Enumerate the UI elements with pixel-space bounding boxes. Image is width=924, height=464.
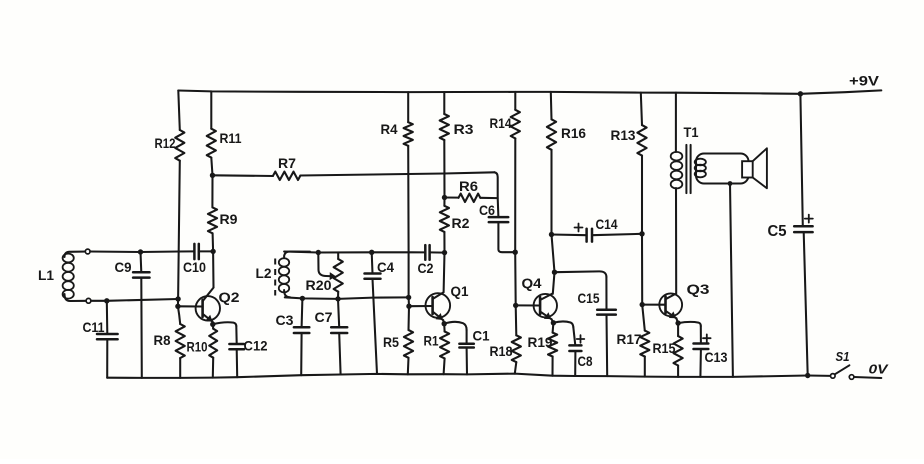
svg-text:C10: C10	[183, 259, 206, 275]
svg-text:R14: R14	[490, 115, 512, 131]
svg-text:C9: C9	[115, 259, 132, 275]
resistor R6	[445, 178, 498, 202]
node Q3 emitter	[675, 320, 680, 325]
resistor R8	[154, 324, 185, 358]
node Q2 collector	[210, 249, 215, 254]
wire rail to switch	[808, 374, 831, 376]
capacitor C13 electrolytic	[694, 326, 728, 377]
svg-text:C13: C13	[705, 349, 728, 365]
node R6 junction	[442, 195, 447, 200]
svg-text:R9: R9	[220, 211, 238, 227]
node R7 junction	[210, 173, 215, 178]
transformer T1 primary	[671, 93, 699, 190]
svg-text:R7: R7	[278, 155, 296, 171]
resistor R1	[424, 324, 450, 375]
label 0V	[869, 362, 890, 377]
wire R11-R9 branch vertical	[211, 91, 213, 287]
resistor R10	[187, 324, 218, 377]
svg-text:R12: R12	[155, 135, 176, 151]
node Q3 base tee	[640, 302, 645, 307]
svg-text:R1: R1	[424, 333, 439, 349]
node Q2 base tee upper	[175, 296, 180, 301]
resistor R3	[440, 114, 474, 140]
svg-text:R8: R8	[154, 332, 171, 348]
transistor Q2	[196, 288, 240, 322]
resistor R11	[207, 129, 242, 158]
node speaker bottom	[728, 181, 733, 186]
svg-text:R3: R3	[454, 121, 474, 137]
capacitor C15	[578, 277, 616, 376]
node C15 tee	[552, 270, 557, 275]
node C11 top	[104, 298, 109, 303]
wire R4 branch	[407, 92, 410, 306]
capacitor C2	[418, 245, 434, 276]
wire Q4 base lead	[516, 304, 540, 306]
transformer T1 core	[686, 145, 690, 193]
wire L1 bottom to base	[91, 299, 178, 301]
svg-text:C1: C1	[473, 328, 490, 344]
node Q1 emitter	[442, 321, 447, 326]
capacitor C7	[315, 299, 348, 375]
capacitor C4	[365, 252, 395, 374]
svg-text:C4: C4	[377, 259, 394, 275]
svg-text:R18: R18	[490, 343, 513, 359]
svg-text:T1: T1	[684, 124, 699, 140]
transistor Q4	[522, 275, 558, 319]
wire R7 line	[213, 172, 495, 176]
svg-text:R11: R11	[220, 130, 242, 146]
resistor R19	[528, 323, 558, 376]
resistor R14	[490, 110, 520, 139]
wire Q4 emitter	[552, 319, 554, 323]
wire Q3 emitter	[676, 318, 678, 323]
svg-text:Q1: Q1	[451, 283, 469, 299]
svg-text:R16: R16	[561, 125, 586, 141]
switch S1	[831, 349, 854, 379]
transformer T1 secondary	[695, 159, 706, 178]
transistor Q1	[426, 253, 469, 321]
wire switch to 0V	[854, 377, 881, 378]
terminal L1 bottom	[86, 298, 91, 303]
wire Q2 base lead	[178, 305, 203, 307]
svg-text:C6: C6	[479, 202, 495, 218]
svg-text:C14: C14	[596, 216, 618, 232]
wire Q3 base lead	[642, 304, 665, 306]
inductor L2	[256, 252, 311, 298]
node C9 top	[138, 249, 143, 254]
node Q1 collector	[442, 250, 447, 255]
wire R7 end down to C6	[495, 172, 499, 217]
resistor R7	[273, 155, 300, 180]
svg-text:L2: L2	[256, 265, 272, 281]
node C4 top	[369, 250, 374, 255]
resistor R15	[653, 323, 683, 377]
wire R14 branch	[514, 92, 517, 306]
node Q2 emitter	[210, 322, 215, 327]
capacitor C12	[229, 326, 267, 377]
capacitor C9	[115, 252, 150, 378]
svg-text:R20: R20	[306, 277, 332, 293]
svg-text:R17: R17	[617, 331, 642, 347]
label +9V	[849, 73, 880, 89]
resistor R13	[611, 125, 647, 156]
node C6 R14 junction	[513, 250, 518, 255]
svg-text:C11: C11	[83, 319, 105, 335]
svg-text:R10: R10	[187, 339, 208, 355]
svg-text:C15: C15	[578, 290, 600, 306]
wire +9V top rail	[178, 90, 881, 93]
svg-text:+9V: +9V	[849, 73, 880, 89]
resistor R4	[381, 121, 413, 146]
wire C6 to R14 branch	[498, 222, 515, 252]
svg-text:L1: L1	[38, 267, 54, 283]
node Q1 tank junction	[406, 295, 411, 300]
wire speaker to 0V	[730, 184, 733, 377]
node R20 bottom	[335, 296, 340, 301]
wire R3 branch	[443, 92, 445, 197]
wire Q1 emitter	[443, 320, 444, 324]
node Q4 emitter	[551, 320, 556, 325]
potentiometer R20	[306, 253, 343, 299]
wire emitter to C12	[213, 322, 237, 326]
capacitor C10	[183, 244, 206, 275]
svg-text:C3: C3	[276, 312, 294, 328]
node C14 left junction	[549, 232, 554, 237]
wire Q2 emitter	[212, 322, 214, 325]
node C5 top	[798, 91, 803, 96]
svg-text:Q3: Q3	[687, 281, 710, 297]
svg-text:C8: C8	[578, 353, 593, 369]
svg-text:R4: R4	[381, 121, 398, 137]
capacitor C3	[276, 298, 310, 375]
resistor R18	[490, 305, 521, 373]
resistor R17	[617, 305, 650, 377]
wire C2 to collector node	[430, 251, 445, 253]
wire R13 branch	[641, 93, 642, 305]
svg-text:0V: 0V	[869, 362, 890, 377]
inductor L1	[38, 252, 89, 302]
resistor R9	[208, 207, 238, 233]
resistor R5	[383, 306, 413, 374]
svg-text:C12: C12	[244, 338, 268, 354]
wire L2 tank bottom	[285, 297, 409, 299]
resistor R12	[155, 130, 185, 161]
capacitor C5 electrolytic	[768, 94, 813, 376]
speaker LS1 magnet	[742, 161, 753, 177]
node Q1 base tee	[406, 304, 411, 309]
node 0V rail end	[805, 373, 810, 378]
wire emitter to C1	[444, 322, 466, 330]
wire C10 to collector node	[199, 250, 213, 252]
terminal L1 top	[85, 249, 90, 254]
resistor R2	[440, 198, 470, 253]
svg-text:Q4: Q4	[522, 275, 542, 291]
svg-text:S1: S1	[836, 349, 850, 364]
capacitor C14 electrolytic	[552, 216, 643, 242]
wire emitter to C13	[678, 322, 701, 326]
svg-text:R2: R2	[452, 215, 470, 231]
wire 0V bottom rail	[107, 374, 808, 378]
core L2 dashed	[274, 259, 276, 296]
svg-text:R6: R6	[459, 178, 478, 194]
resistor R16	[547, 119, 586, 150]
node R20 wiper top	[316, 250, 321, 255]
capacitor C6	[479, 202, 508, 222]
capacitor C1	[459, 328, 489, 375]
wire emitter to C8	[553, 321, 573, 327]
svg-text:C2: C2	[418, 260, 434, 276]
node Q2 base tee	[175, 304, 180, 309]
svg-text:C7: C7	[315, 309, 333, 325]
svg-text:R5: R5	[383, 334, 399, 350]
wire R12-R8 branch vertical	[178, 91, 180, 378]
transistor Q3	[659, 190, 709, 318]
svg-text:R15: R15	[653, 340, 676, 356]
wire R16 branch	[551, 92, 555, 294]
node C3 top	[300, 296, 305, 301]
speaker LS1 cone	[753, 148, 767, 188]
node C14 right junction	[639, 231, 644, 236]
capacitor C8 electrolytic	[569, 327, 592, 376]
speaker LS1 body	[696, 154, 749, 184]
capacitor C11	[83, 301, 118, 378]
svg-text:Q2: Q2	[219, 289, 240, 305]
svg-text:C5: C5	[768, 223, 787, 240]
wire L2 tank top	[284, 252, 425, 253]
wire Q1 base lead	[409, 305, 432, 307]
node Q4 base tee	[513, 303, 518, 308]
wire C15 top	[555, 271, 607, 277]
svg-text:R19: R19	[528, 334, 553, 350]
wire L1 top to C10	[90, 250, 194, 253]
svg-text:R13: R13	[611, 127, 636, 143]
